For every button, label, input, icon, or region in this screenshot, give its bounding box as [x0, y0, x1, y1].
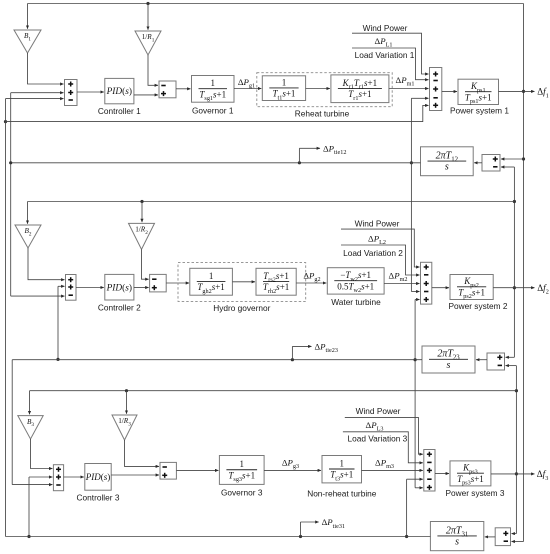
- dashed box Reheat turbine: [257, 73, 392, 107]
- svg-text:s: s: [455, 537, 459, 548]
- wire power summing 1 to Power system 1: [442, 91, 457, 93]
- svg-text:s: s: [447, 360, 451, 371]
- svg-text:Controller 1: Controller 1: [98, 106, 141, 116]
- gain B2: [15, 225, 41, 248]
- wire ΔPtie23 to controller sum 3 (minus): [12, 360, 52, 485]
- node branch to 1/R2: [140, 200, 143, 222]
- gain 1/R2: [129, 223, 155, 249]
- wire tie12 sum to block: [474, 162, 482, 164]
- summing junction power system 3: [424, 450, 435, 492]
- wire ΔPtie31 into power summing 1 (plus): [4, 105, 429, 123]
- svg-text:PID(s): PID(s): [85, 472, 111, 482]
- wire ΔPtie31 to summing S3 (plus): [27, 477, 52, 538]
- comparator D3: [160, 462, 176, 479]
- wire 1/R3 to comparator D3: [125, 440, 160, 466]
- wire wind power into power summing 2: [341, 229, 420, 267]
- wire Governor 3 to non-reheat turbine: [264, 469, 321, 471]
- gain 1/R3: [112, 415, 137, 440]
- comparator D2: [150, 274, 167, 292]
- wire ΔPm2 water turbine to power summing 2: [384, 283, 419, 285]
- op PID controller U1: [105, 78, 134, 103]
- wire tie23 output line: [12, 359, 422, 361]
- tap and label ΔPtie12: [298, 144, 347, 165]
- tap and label ΔPtie31: [299, 517, 345, 538]
- svg-text:1: 1: [282, 77, 287, 87]
- block Water turbine (-Tw2s+1)/(0.5Tw2s+1): [327, 268, 384, 294]
- wire PID1 to D1: [134, 94, 158, 96]
- wire S2 to PID2: [76, 287, 104, 289]
- svg-text:1: 1: [211, 78, 216, 88]
- wire PID3 to D3: [111, 474, 159, 476]
- wire ΔPm3 turbine to power summing 3: [362, 469, 423, 471]
- node branch to 1/R3: [125, 389, 128, 414]
- wire ΔPtie23 to summing S2 (plus): [56, 286, 64, 361]
- wire load variation into power summing 1: [352, 48, 429, 80]
- comparator D1: [159, 81, 176, 98]
- summing junction S1: [65, 80, 78, 106]
- svg-text:Governor 1: Governor 1: [192, 106, 234, 116]
- summing junction S3: [53, 465, 63, 491]
- svg-text:Governor 3: Governor 3: [221, 488, 263, 498]
- wire tie12 output line: [11, 162, 421, 164]
- wire D3 to Governor 3: [176, 469, 218, 471]
- summing junction S2: [66, 275, 77, 301]
- wire PID2 to D2: [134, 287, 149, 289]
- svg-text:Wind Power: Wind Power: [363, 23, 408, 33]
- svg-text:Controller 2: Controller 2: [98, 303, 141, 313]
- svg-text:Controller 3: Controller 3: [77, 493, 120, 503]
- svg-text:Hydro governor: Hydro governor: [213, 303, 270, 313]
- summing junction tie23: [487, 353, 505, 370]
- tap and label ΔPtie23: [291, 342, 338, 362]
- wire reheat internal: [306, 88, 330, 90]
- wire B2 to summing junction S2: [28, 248, 65, 280]
- block tie-line 2πT31/s: [430, 522, 483, 551]
- svg-text:1: 1: [209, 271, 214, 281]
- dashed box Hydro governor: [178, 263, 306, 302]
- wire wind power into power summing 1: [352, 33, 429, 74]
- wire Δf3 feedback line to B3 and 1/R3: [30, 391, 517, 415]
- svg-text:PID(s): PID(s): [106, 86, 132, 97]
- svg-text:s: s: [445, 162, 449, 173]
- wire output Δf2: [493, 287, 534, 289]
- block tie-line 2πT23/s: [422, 346, 475, 373]
- wire Δf2 feedback vertical into tie12 (minus) and tie23 (plus): [501, 167, 516, 357]
- wire ΔPtie12 into power summing 1 (minus): [410, 98, 429, 164]
- wire output Δf3: [491, 473, 535, 475]
- svg-text:Load Variation 3: Load Variation 3: [347, 433, 407, 443]
- op PID controller U2: [105, 274, 134, 300]
- block Power system 3: [450, 461, 491, 487]
- block turbine 1/(Tt1·s+1): [262, 76, 305, 101]
- block Non-reheat turbine 1/(Tt3·s+1): [322, 456, 362, 483]
- wire B1 to summing junction S1: [28, 53, 64, 84]
- svg-text:Load Variation 2: Load Variation 2: [343, 248, 403, 258]
- summing junction tie12: [482, 155, 500, 172]
- wire power summing 2 to Power system 2: [432, 287, 449, 289]
- svg-text:Reheat turbine: Reheat turbine: [295, 109, 350, 119]
- block hydro governor 1/(Tgh2·s+1): [190, 268, 233, 295]
- svg-text:Wind Power: Wind Power: [355, 219, 400, 229]
- wire ΔPtie31 feedback to controller 1 (minus): [6, 99, 64, 537]
- wire D1 to Governor 1: [176, 88, 191, 90]
- gain B3: [18, 416, 43, 439]
- svg-text:Power system 3: Power system 3: [445, 488, 504, 498]
- wire hydro governor to water turbine: [296, 282, 326, 284]
- svg-text:Wind Power: Wind Power: [356, 406, 401, 416]
- wire load variation into power summing 2: [341, 245, 420, 275]
- block hydro governor (Trs2s+1)/(Trh2s+1): [256, 268, 296, 295]
- node branch to 1/R1: [146, 2, 149, 30]
- wire ΔPtie31 into power summing 3 (minus): [405, 479, 423, 538]
- summing junction tie31: [495, 528, 510, 546]
- wire Δf3 feedback vertical into tie23 (minus) and tie31 (plus): [506, 366, 519, 534]
- gain 1/R1: [135, 31, 161, 55]
- wire power summing 3 to Power system 3: [435, 473, 449, 475]
- summing junction power system 2: [421, 262, 432, 304]
- svg-text:Non-reheat turbine: Non-reheat turbine: [307, 489, 377, 499]
- wire ΔPtie12 into power summing 2 (minus): [411, 163, 419, 292]
- wire load variation into power summing 3: [343, 432, 423, 463]
- wire output Δf1: [499, 90, 535, 92]
- block Power system 1: [458, 79, 499, 105]
- wire D2 to hydro governor: [166, 282, 189, 284]
- svg-text:Power system 1: Power system 1: [450, 106, 509, 116]
- wire 1/R1 to comparator D1: [148, 55, 158, 85]
- block Power system 2: [450, 275, 493, 301]
- op PID controller U3: [85, 464, 111, 491]
- svg-text:Power system 2: Power system 2: [448, 301, 507, 311]
- wire tie31 sum to block: [485, 536, 495, 538]
- svg-text:Water turbine: Water turbine: [331, 297, 381, 307]
- wire wind power into power summing 3: [345, 418, 423, 455]
- wire ΔPtie23 into power summing 2 and 3 (plus): [414, 300, 423, 488]
- wire B3 to summing junction S3: [31, 439, 53, 469]
- gain B1: [14, 4, 41, 54]
- wire tie23 sum to block: [476, 359, 487, 361]
- block tie-line 2πT12/s: [421, 147, 474, 176]
- wire Governor 1 to reheat turbine: [234, 88, 261, 90]
- wire 1/R2 to comparator D2: [142, 249, 149, 279]
- wire hydro internal: [232, 281, 255, 283]
- wire S3 to PID3: [64, 476, 84, 478]
- summing junction power system 1: [430, 68, 442, 111]
- block Governor 1: [192, 76, 235, 103]
- svg-text:PID(s): PID(s): [106, 282, 132, 293]
- wire ΔPm1 turbine to power summing 1: [389, 88, 429, 90]
- wire Δf1 into tie31 sum (minus): [512, 541, 524, 543]
- wire Δf1 into tie12 sum (plus): [501, 158, 524, 160]
- svg-text:1: 1: [240, 459, 245, 469]
- wire Δf2 feedback line to B2 and 1/R2: [28, 202, 515, 224]
- block reheat (Kr1Tr1s+1)/(Tr1s+1): [331, 75, 389, 103]
- wire S1 to PID1: [77, 91, 104, 93]
- wire tie31 output line: [6, 536, 431, 538]
- block Governor 3: [219, 456, 264, 485]
- svg-text:1: 1: [340, 458, 345, 468]
- svg-text:Load Variation 1: Load Variation 1: [355, 50, 415, 60]
- wire ΔPtie12 to controller sums 1 and 2: [9, 93, 64, 296]
